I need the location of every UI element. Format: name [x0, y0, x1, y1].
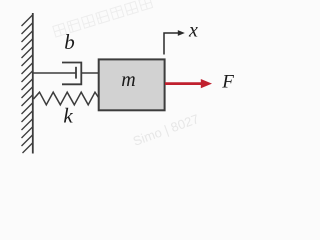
- mass m block: [99, 59, 165, 110]
- watermark top diagonal: [53, 0, 153, 37]
- svg-text:F: F: [221, 72, 234, 93]
- wall vertical line: [32, 13, 34, 154]
- svg-text:x: x: [188, 19, 198, 41]
- damper rod right: [81, 72, 99, 74]
- wall hatching: [22, 15, 34, 154]
- force F arrow shaft: [165, 82, 203, 85]
- svg-text:b: b: [64, 30, 75, 54]
- damper cylinder: [62, 63, 81, 85]
- svg-text:k: k: [63, 104, 73, 128]
- damper rod left: [33, 72, 76, 74]
- damper piston: [75, 67, 77, 79]
- x axis marker: [164, 33, 181, 55]
- force F arrowhead: [201, 79, 212, 88]
- spring k: [34, 92, 100, 105]
- x arrowhead: [178, 30, 185, 36]
- svg-text:m: m: [121, 69, 135, 91]
